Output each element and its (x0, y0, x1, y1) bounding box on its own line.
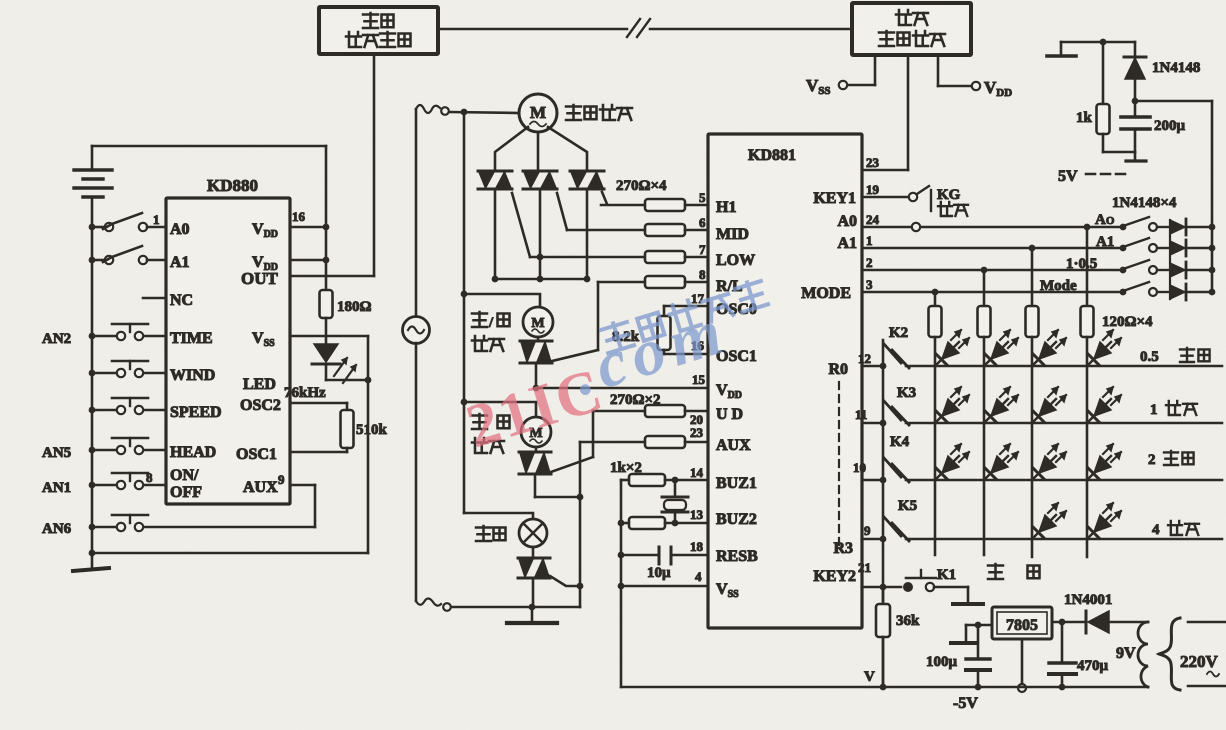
terminal pin24 (912, 223, 920, 231)
pin LOW label (716, 252, 755, 269)
svg-text:NC: NC (170, 292, 193, 309)
transformer brace (1159, 618, 1180, 690)
ground left bus (73, 553, 109, 571)
svg-text:K3: K3 (897, 385, 916, 401)
wire triac3 drop (586, 189, 589, 279)
wire bottom left to Vss (89, 336, 368, 556)
pin 15 label (692, 372, 706, 387)
switch A0 (pin1) (89, 213, 166, 231)
ground K1 (953, 602, 983, 606)
svg-text:ON/: ON/ (170, 467, 199, 484)
resistor 270-6 (AUX) (580, 436, 708, 448)
svg-text:K5: K5 (898, 498, 917, 514)
capacitor 200u (1121, 101, 1150, 152)
pin 8 label881 (699, 267, 706, 282)
resistor 36k (876, 587, 890, 687)
label 1N4001 (1064, 592, 1112, 608)
label Vdd2 (252, 254, 278, 273)
resistor 510k (341, 403, 354, 452)
pin 6 label (699, 215, 706, 230)
pin 7 label (699, 242, 706, 257)
svg-text:WIND: WIND (170, 367, 215, 384)
pin WIND label (170, 367, 215, 384)
receiver Vdd stub (938, 55, 971, 86)
label 270x4 (616, 178, 667, 194)
label V (864, 669, 875, 685)
svg-text:KG: KG (937, 187, 961, 203)
wire K1 to ground (934, 587, 968, 602)
svg-text:AN5: AN5 (42, 445, 71, 461)
label 10u (647, 565, 671, 581)
pin A1b label (837, 235, 857, 252)
LED row1 col x1087 (1088, 330, 1121, 365)
svg-text:KD880: KD880 (207, 176, 258, 195)
resistor 270-3 (LOW) (530, 251, 708, 263)
svg-text:4: 4 (1152, 522, 1160, 538)
wire gate T1 to LOW (512, 193, 530, 257)
svg-text:OSC2: OSC2 (240, 397, 281, 414)
resistor 270-4 (R/L) (598, 276, 708, 288)
label KD880 (207, 176, 258, 195)
watermark 中国电子网 (600, 278, 768, 353)
label 1-0.5 (1066, 256, 1097, 272)
svg-text:2: 2 (1148, 452, 1156, 468)
LED row2 col x1032 (1033, 387, 1066, 422)
svg-text:16: 16 (292, 209, 306, 224)
svg-text:270Ω×4: 270Ω×4 (616, 178, 667, 194)
svg-text:K1: K1 (937, 567, 956, 583)
wire gate LR (552, 350, 598, 361)
wire left bus (91, 227, 94, 553)
LED row2 col x1087 (1088, 387, 1121, 422)
lamp 照明 (519, 519, 547, 547)
svg-text:/: / (488, 315, 494, 331)
svg-text:23: 23 (866, 155, 880, 170)
svg-text:510k: 510k (356, 422, 388, 438)
svg-text:470μ: 470μ (1077, 658, 1109, 674)
label OSC1 (236, 446, 277, 463)
switch KG (909, 186, 931, 211)
pin OSC2 wire (290, 402, 347, 405)
motor M up-down (521, 417, 551, 447)
svg-text:SPEED: SPEED (170, 404, 222, 421)
svg-text:10μ: 10μ (647, 565, 671, 581)
label 上下电机 (472, 414, 510, 453)
svg-text:V: V (864, 669, 875, 685)
triac LR (520, 337, 552, 363)
pin Vdd15 label (716, 382, 742, 401)
pin 24 wire (862, 212, 911, 227)
pin Vss wire (290, 335, 368, 338)
label AN6 (42, 521, 72, 537)
switch ON/OFF (AN1) (89, 473, 166, 489)
LED arrows (334, 358, 356, 383)
capacitor 100u (966, 625, 990, 690)
transformer secondary (1138, 622, 1148, 687)
pin OSC1c label (716, 348, 757, 365)
pin 9 label (278, 472, 285, 487)
svg-text:H1: H1 (716, 199, 736, 216)
break symbol bottom (416, 599, 451, 611)
svg-text:MID: MID (716, 226, 749, 243)
svg-text:AUX: AUX (243, 479, 278, 496)
switch K5 (884, 517, 909, 541)
svg-text:K2: K2 (889, 325, 908, 341)
label Ao (1095, 212, 1115, 228)
wire Vdd chain (323, 146, 330, 276)
pin Vss4 label (716, 581, 739, 600)
label LED pin (243, 376, 276, 393)
label 1kx2 (610, 460, 642, 476)
capacitor 10u (RESB) (618, 547, 708, 564)
svg-text:1: 1 (153, 212, 160, 227)
pin H1 label (716, 199, 736, 216)
pin 14 label (690, 465, 704, 480)
wire battery top (92, 145, 326, 148)
label 5V (1058, 168, 1128, 185)
pin R3 label (833, 540, 853, 557)
wire transmitter output down to OUT (290, 54, 374, 276)
label K4 (890, 434, 910, 450)
label 220V (1180, 652, 1219, 677)
svg-text:BUZ1: BUZ1 (716, 475, 757, 492)
label 左/右电机 (472, 312, 510, 351)
pin KEY2 label (813, 568, 856, 585)
LED row2 col x984 (985, 387, 1018, 422)
pin 23b label (690, 425, 704, 440)
wire left rail to bus (620, 480, 623, 687)
pin MODE label (801, 285, 851, 302)
pin 23 top label (866, 155, 880, 170)
pin 1 label (153, 212, 160, 227)
resistor 120-3 + column3 (1026, 248, 1039, 557)
svg-text:12: 12 (858, 351, 871, 366)
svg-text:-5V: -5V (953, 695, 978, 712)
label K5 (898, 498, 917, 514)
label KG 照明 (938, 202, 968, 216)
wire lamp triac to ground node (529, 578, 536, 610)
svg-text:13: 13 (690, 507, 704, 522)
node fan feed (450, 109, 519, 116)
svg-text:1N4001: 1N4001 (1064, 592, 1112, 608)
motor M fan (519, 94, 557, 132)
pin AUX wire (290, 485, 315, 527)
svg-text:200μ: 200μ (1154, 118, 1186, 134)
resistor 120-2 + column2 (978, 270, 991, 555)
svg-text:100μ: 100μ (926, 654, 958, 670)
svg-text:4: 4 (695, 569, 702, 584)
pin MID label (716, 226, 749, 243)
label Vdd16 (252, 221, 278, 240)
resistor 270-2 (MID) (567, 224, 708, 236)
svg-text:Mode: Mode (1040, 278, 1077, 294)
wire fan to triac3 (548, 127, 587, 171)
terminal Vdd (972, 82, 980, 90)
label 100u (926, 654, 958, 670)
wire feed lamp (464, 513, 533, 519)
svg-text:14: 14 (690, 465, 704, 480)
pin OSC1b wire (664, 338, 708, 354)
diode D05 (1170, 262, 1215, 278)
wire 5V bottom (1103, 152, 1146, 161)
LED row3 col x1087 (1088, 444, 1121, 479)
switch SA1 (1120, 238, 1170, 252)
pin TIME label (170, 330, 213, 347)
svg-text:3: 3 (866, 277, 873, 292)
label 照明 (476, 526, 506, 541)
label AN5 (42, 445, 71, 461)
svg-text:BUZ2: BUZ2 (716, 511, 757, 528)
LED row3 col x935 (936, 444, 969, 479)
pin OSC0 label (716, 301, 757, 318)
svg-text:OFF: OFF (170, 484, 202, 501)
terminal bar top-left (1047, 42, 1076, 56)
label 8.2k (612, 329, 640, 345)
pin 19 wire (862, 182, 908, 197)
svg-text:A0: A0 (837, 213, 857, 230)
svg-text:AO: AO (1095, 212, 1115, 228)
svg-text:11: 11 (855, 407, 867, 422)
switch S05 (1120, 260, 1170, 274)
label K1 开关 (937, 564, 1040, 583)
pin ON/OFF label (170, 467, 202, 501)
label 76kHz (284, 385, 326, 401)
label Vss (806, 76, 831, 97)
resistor 1k-2 (BUZ2) (618, 517, 708, 529)
diode DMode (1170, 284, 1215, 300)
break symbol top (416, 105, 449, 115)
pin KEY1 label (813, 190, 856, 207)
svg-text:21: 21 (858, 560, 871, 575)
svg-text:220V: 220V (1180, 652, 1219, 671)
pin Vss4 wire (618, 583, 708, 590)
IC KD881 box (708, 134, 862, 628)
wire LR triac to Vdd15 (533, 363, 540, 391)
regulator 7805 box (992, 607, 1052, 639)
svg-text:KEY2: KEY2 (813, 568, 856, 585)
label 180 (337, 299, 372, 315)
watermark 21IC (459, 356, 612, 462)
label 200u (1154, 118, 1186, 134)
pin R/L label (716, 278, 743, 295)
pin 12 wire + R0 row (858, 351, 1222, 366)
svg-text:1N4148: 1N4148 (1152, 60, 1200, 76)
wire AC top vertical (415, 109, 418, 317)
pin 3 wire + Mode row (862, 277, 1120, 295)
wire AUX vertical (577, 442, 584, 607)
svg-text:K4: K4 (890, 434, 910, 450)
svg-text:76kHz: 76kHz (284, 385, 326, 401)
svg-text:18: 18 (690, 539, 704, 554)
label 0.5 hour (1140, 348, 1210, 365)
pin 10 wire + row (853, 460, 1222, 480)
svg-text:9: 9 (278, 472, 285, 487)
wire break to lamp node (452, 606, 580, 609)
label K3 (897, 385, 916, 401)
label 270x2 (610, 392, 661, 408)
motor M left-right (523, 307, 553, 337)
switch K1 (903, 570, 936, 592)
resistor 8.2k (658, 306, 671, 354)
ground 7805 out (951, 625, 977, 643)
pin BUZ1 label (716, 475, 757, 492)
battery B1 (74, 146, 112, 227)
svg-text:6: 6 (699, 215, 706, 230)
svg-text:1: 1 (866, 233, 873, 248)
svg-text:2: 2 (866, 255, 873, 270)
triac T3 (570, 171, 604, 189)
switch SPEED (89, 398, 166, 414)
pin AUX label (716, 437, 751, 454)
label 4 hour (1152, 521, 1199, 538)
label OUT (241, 269, 279, 288)
label 1 hour (1150, 401, 1197, 418)
label KG (937, 187, 961, 203)
pin 13 label (690, 507, 704, 522)
capacitor 470u (1049, 622, 1076, 690)
label KD881 (748, 147, 796, 164)
resistor 270-1 (H1) (601, 199, 708, 211)
svg-text:180Ω: 180Ω (337, 299, 372, 315)
svg-text:TIME: TIME (170, 330, 213, 347)
watermark .com (564, 294, 737, 410)
diode bank line (1169, 220, 1171, 299)
svg-text:LOW: LOW (716, 252, 755, 269)
switch SMode (1120, 282, 1170, 296)
pin A1 label (170, 254, 190, 271)
wire AC bottom vertical (415, 343, 418, 601)
switch A1 (89, 246, 166, 264)
IR transmitter box 红外发射装置 (319, 7, 438, 54)
LED row3 col x1032 (1033, 444, 1066, 479)
terminal 7805 gnd (1018, 684, 1026, 692)
label 120x4 (1102, 314, 1153, 330)
pin UD label (716, 406, 743, 423)
triac T1 (478, 171, 512, 189)
wire gate UD (551, 411, 593, 472)
pin 4 label (695, 569, 702, 584)
wire fan to triac1 (495, 127, 528, 171)
triac UD (519, 447, 551, 474)
switch K2 (884, 344, 909, 368)
pin NC stub (143, 297, 166, 300)
triac T2 (523, 171, 557, 189)
pin 2 wire + row (862, 255, 1120, 273)
svg-text:U D: U D (716, 406, 743, 423)
svg-text:OSC1: OSC1 (236, 446, 277, 463)
diode 1N4001 (1086, 611, 1148, 633)
svg-text:8: 8 (146, 470, 153, 485)
pin OSC0 wire (664, 291, 708, 306)
svg-text:9V: 9V (1116, 645, 1136, 662)
svg-text:5V: 5V (1058, 168, 1078, 185)
switch TIME (AN2) (89, 324, 166, 340)
switch WIND (89, 361, 166, 377)
wire 7805 gnd pin (1021, 639, 1024, 684)
label A1sw (1096, 234, 1114, 250)
pin OSC1 wire (290, 451, 347, 454)
wire gate T2 to MID (557, 193, 567, 230)
resistor 180 (320, 276, 333, 344)
svg-text:10: 10 (853, 460, 866, 475)
label 510k (356, 422, 388, 438)
pin 9 wire + R3 row (862, 523, 1222, 539)
svg-text:AN2: AN2 (42, 331, 71, 347)
AC source G1 (403, 317, 430, 344)
svg-text:1·0.5: 1·0.5 (1066, 256, 1097, 272)
svg-text:19: 19 (866, 182, 880, 197)
pin 1b wire + A1 row (862, 233, 1120, 251)
wire motor feed vertical (461, 112, 468, 513)
svg-text:HEAD: HEAD (170, 444, 216, 461)
LED row1 col x1032 (1033, 330, 1066, 365)
svg-text:A1: A1 (170, 254, 190, 271)
label 1N4148 (1152, 60, 1200, 76)
wire 5V circuit top (1061, 39, 1135, 46)
break symbol // (627, 19, 650, 37)
svg-text:1k: 1k (1076, 110, 1093, 126)
svg-text:AUX: AUX (716, 437, 751, 454)
pin 21 wire (858, 560, 901, 587)
IR receiver box 红外接收装置 (852, 3, 971, 55)
switch AN6 (89, 515, 315, 531)
resistor 1k (1076, 42, 1110, 152)
wire feed LR motor (464, 294, 540, 307)
svg-text:24: 24 (866, 212, 880, 227)
svg-text:AN6: AN6 (42, 521, 72, 537)
diode DA0 (1170, 219, 1215, 235)
svg-text:KEY1: KEY1 (813, 190, 856, 207)
wire 7805 out (966, 622, 992, 629)
LED row1 col x935 (936, 330, 969, 365)
pin 18 label (690, 539, 704, 554)
node 5V output (1132, 98, 1212, 105)
svg-text:23: 23 (690, 425, 704, 440)
dashed scan line (838, 382, 840, 548)
label AN1 (42, 480, 71, 496)
svg-text:RESB: RESB (716, 548, 758, 565)
label Vss880 (252, 330, 275, 349)
wire triac collector (492, 276, 591, 283)
svg-text:36k: 36k (896, 613, 920, 629)
pin Vdd 2 wire (290, 259, 326, 262)
wire gate lamp (550, 576, 580, 586)
wire fan to triac2 (537, 132, 540, 171)
svg-text:OUT: OUT (241, 269, 279, 288)
svg-text:7: 7 (699, 242, 706, 257)
wire right bus from 5V (1211, 101, 1214, 292)
svg-text:A1: A1 (837, 235, 857, 252)
pin RESB label (716, 548, 758, 565)
pin A0 label (170, 221, 190, 238)
label 470u (1077, 658, 1109, 674)
switch K4 (884, 458, 909, 482)
svg-text:A0: A0 (170, 221, 190, 238)
svg-text:1N4148×4: 1N4148×4 (1112, 195, 1177, 211)
ground lamp (507, 607, 557, 623)
svg-text:AN1: AN1 (42, 480, 71, 496)
switch SA0 (1120, 217, 1170, 231)
label Vdd (984, 78, 1012, 99)
triac lamp (518, 547, 550, 578)
resistor 120-1 + column1 (929, 292, 942, 555)
label 36k (896, 613, 920, 629)
wire feed UD motor (464, 402, 536, 417)
switch HEAD (AN5) (89, 438, 166, 454)
svg-text:R0: R0 (828, 361, 848, 378)
svg-text:M: M (530, 103, 546, 122)
svg-text:5: 5 (699, 190, 706, 205)
